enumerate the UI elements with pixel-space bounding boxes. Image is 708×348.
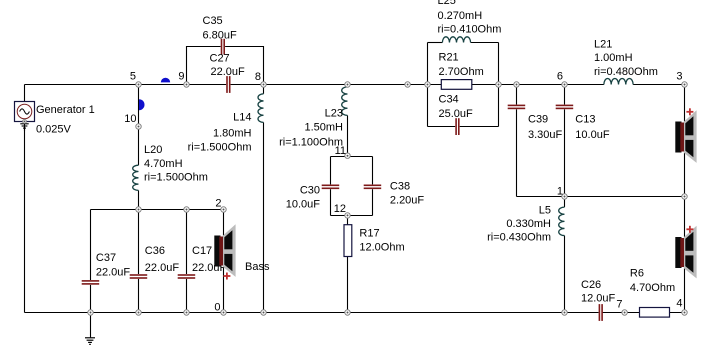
svg-text:ri=0.410Ohm: ri=0.410Ohm [438,24,502,36]
capacitor C17 [178,274,196,279]
label C35 [203,15,238,42]
label tweeter plus [686,108,693,115]
svg-text:ri=1.500Ohm: ri=1.500Ohm [188,142,252,154]
svg-text:22.0uF: 22.0uF [96,267,131,279]
label L25 [438,0,502,36]
wire C17 branch lower [186,279,188,313]
svg-text:10: 10 [124,113,136,125]
probe arrow vertical [139,99,145,110]
label C30 [286,185,321,211]
wire node5 to L20 [138,85,140,166]
wire L5 to bottom rail [564,236,566,313]
wire L25 top left segment [428,42,443,44]
capacitor C39 [508,105,526,110]
speaker mid [675,226,696,279]
svg-text:Generator 1: Generator 1 [36,104,95,116]
svg-text:1.00mH: 1.00mH [594,52,633,64]
svg-text:C17: C17 [192,245,212,257]
svg-text:C37: C37 [96,252,116,264]
node 4 [682,310,687,315]
wire C34 bottom right segment [460,126,499,128]
svg-text:L5: L5 [539,205,551,217]
node junction L23 top [345,82,350,87]
svg-text:L21: L21 [594,39,612,51]
svg-text:4.70mH: 4.70mH [144,158,183,170]
wire bottom rail left segment [25,312,599,314]
inductor L20 [133,165,139,190]
svg-text:10.0uF: 10.0uF [575,129,610,141]
wire C39 branch upper [516,85,518,105]
svg-text:1.50mH: 1.50mH [304,122,343,134]
label L5 [487,205,551,244]
node R17 bottom [345,310,350,315]
wire left vertical generator branch [24,85,26,313]
wire speaker1 branch [684,85,686,197]
probe arrow horizontal [161,78,170,83]
wire C36 branch lower [138,279,140,313]
wire L20 to node2 rail [138,190,140,209]
svg-text:0.330mH: 0.330mH [506,218,551,230]
svg-text:12.0uF: 12.0uF [581,293,616,305]
svg-text:ri=0.430Ohm: ri=0.430Ohm [487,232,551,244]
node generator bottom [23,120,27,124]
svg-text:22.0uF: 22.0uF [211,66,246,78]
svg-text:C38: C38 [390,181,410,193]
node 8 [261,82,266,87]
capacitor C36 [130,274,148,279]
inductor L14 [258,94,263,123]
wire node 12 to R17 [347,215,349,224]
capacitor C30 [322,185,340,190]
svg-text:6.80uF: 6.80uF [203,30,238,42]
wire R21 box left vertical [427,43,429,127]
wire C30 branch lower [330,189,332,215]
label R17 [359,228,404,254]
svg-text:ri=0.480Ohm: ri=0.480Ohm [594,66,658,78]
capacitor C37 [82,280,100,285]
svg-text:2.20uF: 2.20uF [390,195,425,207]
svg-text:2: 2 [215,198,221,210]
label Bass plus [223,273,230,280]
svg-text:4: 4 [676,298,682,310]
svg-text:ri=1.500Ohm: ri=1.500Ohm [144,172,208,184]
node C39 top [514,82,519,87]
label L23 [279,108,343,149]
wire C38 branch lower [372,189,374,215]
svg-text:12.0Ohm: 12.0Ohm [359,242,404,254]
wire C39 branch lower [516,109,518,196]
label C26 [581,279,616,305]
capacitor C26 [599,304,603,321]
svg-text:R21: R21 [439,52,459,64]
label Generator 1 [36,104,95,136]
wire C38 branch upper [372,157,374,185]
svg-text:25.0uF: 25.0uF [439,108,474,120]
svg-text:6: 6 [557,71,563,83]
svg-text:C39: C39 [528,114,548,126]
capacitor C35 [221,39,225,55]
label mid plus [686,226,693,233]
svg-text:C26: C26 [581,279,601,291]
generator Generator 1 [15,102,35,122]
inductor L5 [559,207,565,235]
svg-text:7: 7 [616,299,622,311]
svg-text:8: 8 [255,71,261,83]
speaker tweeter [675,110,696,163]
wire C17 branch upper [186,210,188,275]
inductor L25 [442,37,470,43]
wire L25 top right segment [471,42,499,44]
svg-text:1.80mH: 1.80mH [213,128,252,140]
wire top rail left segment [25,84,227,86]
node C36 bottom [136,310,141,315]
wire C13 branch upper [564,85,566,105]
label R6 [630,268,675,295]
wire C37 branch upper [90,210,92,281]
label C39 [528,114,563,142]
node 5 [136,82,141,87]
svg-text:1: 1 [557,186,563,198]
ground generator [20,124,28,130]
label C36 [145,245,180,274]
svg-text:Bass: Bass [245,261,270,273]
resistor R6 [640,308,670,318]
node L20 bottom [136,207,141,212]
capacitor C13 [556,105,574,110]
node 0 [221,310,226,315]
svg-text:11: 11 [335,145,346,157]
wire C34 bottom left segment [428,126,456,128]
svg-text:L23: L23 [325,108,343,120]
wire C30/C38 box top [331,156,373,158]
svg-text:4.70Ohm: 4.70Ohm [630,282,675,294]
label C27 [210,53,246,79]
capacitor C27 [226,76,230,93]
svg-text:R17: R17 [359,228,379,240]
svg-text:L20: L20 [144,144,162,156]
inductor L21 [604,79,633,85]
wire top rail mid segment [231,84,604,86]
svg-text:2.70Ohm: 2.70Ohm [439,66,484,78]
wire node 1 rail [517,196,685,198]
capacitor C38 [364,185,382,190]
wire top rail right segment [633,84,684,86]
wire node8 to L14 [263,85,265,94]
svg-text:0.270mH: 0.270mH [438,10,483,22]
wire R21 box right vertical [498,43,500,127]
svg-text:L25: L25 [438,0,456,7]
svg-text:5: 5 [130,71,136,83]
label L21 [594,39,658,79]
resistor R17 [344,225,352,257]
svg-text:0: 0 [214,302,220,314]
svg-text:9: 9 [178,71,184,83]
node ground junction [88,310,93,315]
wire bottom rail right segment [602,312,684,314]
node C17 top [184,207,189,212]
svg-text:L14: L14 [233,112,251,124]
resistor R21 [441,80,472,90]
wire C30 branch upper [330,157,332,185]
node 9 [184,82,189,87]
svg-text:C27: C27 [210,53,230,65]
wire C35 loop [187,47,221,85]
inductor L23 [342,87,348,115]
node 3 [682,82,687,87]
label R21 [439,52,484,79]
svg-text:22.0uF: 22.0uF [145,262,180,274]
svg-text:R6: R6 [630,268,644,280]
svg-text:C34: C34 [439,94,459,106]
svg-text:3.30uF: 3.30uF [528,129,563,141]
wire C36 branch upper [138,210,140,275]
svg-text:C35: C35 [203,15,223,27]
wire node 2 rail [91,209,224,211]
wire bass speaker branch [223,210,225,313]
wire node 1 to L5 [564,197,566,208]
label C13 [575,114,610,142]
node 7 [622,310,627,315]
svg-text:C36: C36 [145,245,165,257]
node 2 [221,207,226,212]
label C37 [96,252,131,279]
label C17 [192,245,227,274]
svg-text:10.0uF: 10.0uF [286,199,321,211]
node L14 bottom [261,310,266,315]
node R21 left [425,82,430,87]
node 1 [562,194,567,199]
label L14 [188,112,252,154]
wire junction to L23 [347,85,349,87]
label C38 [390,181,425,207]
wire C37 branch lower [90,285,92,313]
svg-text:C30: C30 [300,185,320,197]
node 6 [562,82,567,87]
node junction rail [405,82,410,87]
svg-text:12: 12 [334,203,346,215]
svg-text:C13: C13 [575,114,595,126]
wire C30/C38 box bottom [331,215,373,217]
wire R17 to bottom rail [347,257,349,313]
node C17 bottom [184,310,189,315]
node 11 [345,153,350,158]
node 10 [136,124,141,129]
wire C13 branch lower [564,109,566,196]
label L20 [144,144,208,184]
svg-text:0.025V: 0.025V [36,124,72,136]
svg-text:3: 3 [676,71,682,83]
node L5 bottom [562,310,567,315]
capacitor C34 [455,118,459,135]
wire L14 to bottom rail [263,122,265,312]
wire speaker2 branch [684,197,686,313]
node 12 [345,213,350,218]
ground main [85,313,95,345]
speaker Bass [214,224,235,277]
wire L23 to node 11 [347,115,349,155]
label C34 [439,94,474,121]
node speaker1 bottom [682,194,687,199]
svg-text:ri=1.100Ohm: ri=1.100Ohm [279,137,343,149]
node R21 right [496,82,501,87]
